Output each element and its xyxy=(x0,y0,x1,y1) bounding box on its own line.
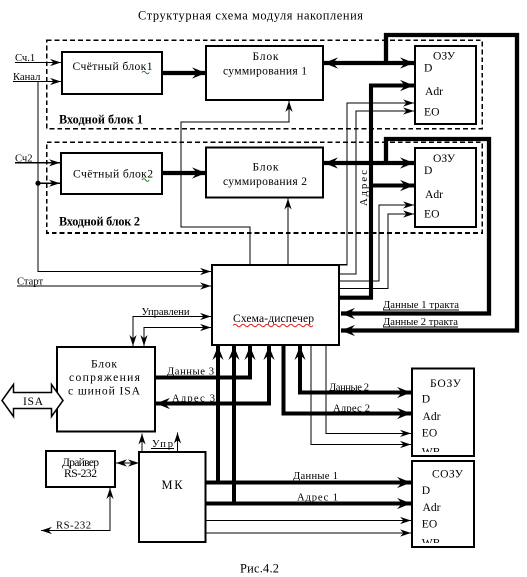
bus Блок суммирования 1 to ОЗУ1 D (bidirectional) xyxy=(324,61,414,65)
wire RS-232 (to Драйвер, arrow left and arrow up) xyxy=(41,488,110,531)
underline Упр xyxy=(151,448,174,450)
wire Схема-диспечер to Блок суммирования 2 xyxy=(287,199,289,265)
spellcheck squiggle under блок2 xyxy=(142,179,149,182)
wire Схема-диспечер to Блок суммирования 1 (zigzag) xyxy=(181,101,289,264)
block: ОЗУ 2 xyxy=(415,148,476,227)
bus loop 1 (ОЗУ1 D to Схема-диспечер, Данные 2 тракта) xyxy=(341,35,517,331)
svg-text:Счётный блок2: Счётный блок2 xyxy=(73,168,153,181)
bus Адрес 3 (Схема-диспечер to Блок сопряжения, both arrows) xyxy=(156,346,269,404)
block: БОЗУ xyxy=(412,369,474,459)
bus Адрес 2 (Схема-диспечер to БОЗУ Adr) xyxy=(284,346,412,414)
block: Схема-диспечер xyxy=(212,265,339,345)
svg-text:D: D xyxy=(422,393,430,406)
spellcheck squiggle under Схема-диспечер xyxy=(233,324,313,327)
bus Блок суммирования 2 to ОЗУ2 D (bidirectional) xyxy=(324,161,414,165)
wire Схема-диспечер to БОЗУ EO xyxy=(326,346,411,433)
ISA double arrow xyxy=(2,385,63,417)
wire Схема-диспечер to ОЗУ2 pin EO xyxy=(340,214,414,289)
svg-text:Адрес: Адрес xyxy=(359,170,370,206)
svg-text:Adr: Adr xyxy=(423,410,441,423)
svg-text:Данные 2 тракта: Данные 2 тракта xyxy=(383,317,458,328)
svg-text:сопряжения: сопряжения xyxy=(69,371,141,384)
svg-text:Структурная схема модуля накоп: Структурная схема модуля накопления xyxy=(138,9,363,23)
block: Блок суммирования 2 xyxy=(206,148,323,198)
bus Адрес from Схема-диспечер to ОЗУ1 Adr and ОЗУ2 Adr xyxy=(340,86,414,298)
svg-text:суммирования 2: суммирования 2 xyxy=(223,175,307,188)
bus Адрес 1 (МК to СОЗУ Adr) xyxy=(207,502,412,506)
block: Драйвер RS-232 xyxy=(46,451,115,487)
svg-text:ОЗУ: ОЗУ xyxy=(433,50,456,63)
wire Управлени 1 (Блок сопряжения - Схема-диспечер) xyxy=(133,317,211,347)
underline Данные 2 тракта xyxy=(383,326,458,328)
block: Блок сопряжения с шиной ISA xyxy=(57,347,155,432)
svg-text:с шиной ISA: с шиной ISA xyxy=(68,385,141,398)
dashed box: Входной блок 2 xyxy=(47,142,482,233)
wire Схема-диспечер to ОЗУ2 pin above EO xyxy=(340,205,414,281)
wire Сч.1 into Счётный блок1 xyxy=(15,62,61,64)
bus Данные 2 (Схема-диспечер to БОЗУ D, both arrows) xyxy=(300,346,411,393)
wire МК to СОЗУ WR xyxy=(207,532,412,534)
svg-text:EO: EO xyxy=(424,106,439,119)
underline Данные 1 тракта xyxy=(383,309,459,311)
wire Схема-диспечер to БОЗУ WR xyxy=(311,346,411,445)
svg-text:Adr: Adr xyxy=(425,188,443,201)
svg-text:Блок: Блок xyxy=(253,50,279,63)
svg-text:Схема-диспечер: Схема-диспечер xyxy=(233,312,314,325)
block: СОЗУ xyxy=(412,461,474,550)
svg-text:EO: EO xyxy=(422,427,437,440)
svg-text:Блок: Блок xyxy=(253,161,279,174)
svg-text:БОЗУ: БОЗУ xyxy=(430,377,462,390)
wire Старт into Схема-диспечер xyxy=(17,285,211,287)
block: ОЗУ 1 xyxy=(415,46,476,124)
svg-text:EO: EO xyxy=(422,518,437,531)
wire Упр 1 (МК to Блок сопряжения) xyxy=(141,434,143,453)
wire Драйвер - МК (bidirectional) xyxy=(116,462,139,464)
bus Данные 1 (МК to СОЗУ D) xyxy=(207,481,412,485)
wire МК to СОЗУ EO xyxy=(207,520,412,522)
svg-text:суммирования 1: суммирования 1 xyxy=(223,65,307,78)
bus Счётный блок1 to Блок суммирования 1 xyxy=(163,71,206,75)
svg-text:Adr: Adr xyxy=(423,501,441,514)
wire Канал branch down into Схема-диспечер xyxy=(38,82,211,272)
svg-text:ОЗУ: ОЗУ xyxy=(433,152,456,165)
wire Схема-диспечер to ОЗУ1 pin above EO xyxy=(340,103,414,265)
bus Данные 3 (Блок сопряжения to Схема-диспечер) xyxy=(156,346,250,378)
svg-text:D: D xyxy=(422,484,430,497)
svg-text:D: D xyxy=(424,62,432,75)
dashed box: Входной блок 1 xyxy=(47,40,482,128)
junction dot on Канал line xyxy=(35,181,40,186)
svg-text:Adr: Adr xyxy=(425,85,443,98)
block: Счётный блок2 xyxy=(61,153,162,194)
svg-text:Входной блок 1: Входной блок 1 xyxy=(59,113,143,127)
svg-text:Данные 1: Данные 1 xyxy=(293,471,338,482)
svg-text:ISA: ISA xyxy=(23,395,44,408)
wire Упр 2 (МК up) xyxy=(177,433,179,453)
block: МК xyxy=(139,452,206,542)
wire Канал branch into Счётный блок2 xyxy=(38,182,60,184)
bus loop 2 (ОЗУ2 D to Схема-диспечер, Данные 1 тракта) xyxy=(341,139,489,314)
wire Сч2 into Счётный блок2 xyxy=(15,162,60,164)
svg-text:EO: EO xyxy=(424,208,439,221)
svg-text:СОЗУ: СОЗУ xyxy=(432,468,464,481)
svg-text:Рис.4.2: Рис.4.2 xyxy=(240,562,279,576)
wire Управлени 2 (Блок сопряжения - Схема-диспечер) xyxy=(144,328,211,347)
svg-text:RS-232: RS-232 xyxy=(64,467,97,480)
svg-text:Блок: Блок xyxy=(91,358,117,371)
bus Данные 1 vertical (Схема-диспечер junction) xyxy=(216,346,220,483)
bus Адрес 1 vertical (Схема-диспечер junction) xyxy=(232,346,236,504)
wire Схема-диспечер to ОЗУ1 pin EO xyxy=(340,111,414,274)
spellcheck squiggle under блок1 xyxy=(142,71,149,74)
svg-text:D: D xyxy=(424,164,432,177)
svg-text:МК: МК xyxy=(162,478,184,492)
block: Счётный блок1 xyxy=(62,52,162,94)
svg-text:Входной блок 2: Входной блок 2 xyxy=(59,215,140,229)
block: Блок суммирования 1 xyxy=(206,46,323,100)
svg-text:Счётный блок1: Счётный блок1 xyxy=(73,60,153,73)
bus Адрес branch to ОЗУ2 Adr xyxy=(371,183,414,187)
bus Счётный блок2 to Блок суммирования 2 xyxy=(163,171,206,175)
wire Канал into Счётный блок1 xyxy=(13,81,61,83)
